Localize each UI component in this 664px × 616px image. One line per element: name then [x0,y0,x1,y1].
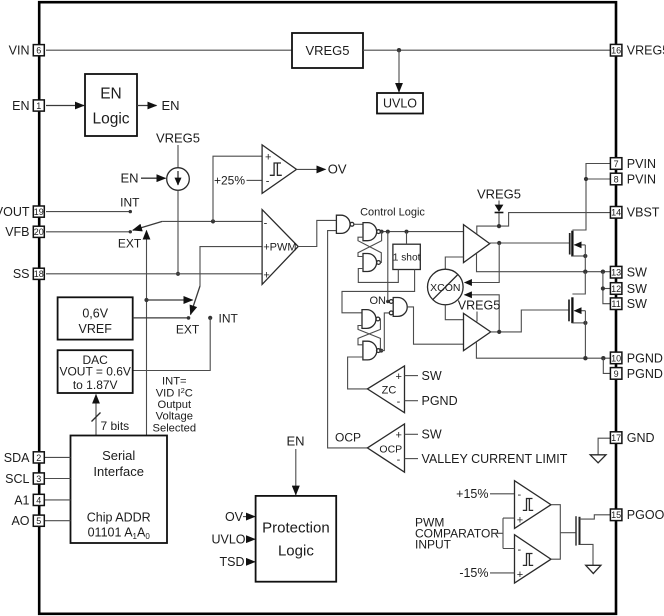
and gate ON (inverted inputs) [389,298,407,317]
wire VBST pin to bootstrap [477,213,611,234]
current source I-SS [167,168,190,191]
wire VREG5 box to pin 16 [363,49,610,51]
svg-text:7: 7 [614,159,619,169]
note INT= VID I2C Output Voltage Selected [153,376,197,435]
dac block [58,350,133,393]
svg-text:SDA: SDA [4,451,30,465]
wire L1 out to ON gate [388,232,389,302]
junction SW c [601,286,605,290]
svg-text:-: - [266,175,270,187]
pin 2 SDA [4,451,45,465]
comparator OCP (overcurrent) [367,424,404,472]
junction HS gate [497,241,501,245]
wire SDA to serial interface [44,456,70,458]
junction PVIN [584,177,588,181]
wire Q1 source to SW [584,245,586,272]
wire SW rail [477,254,611,272]
wire GND pin to ground [598,438,610,454]
svg-text:INT: INT [219,311,239,325]
junction VREG5 net [397,48,401,52]
svg-text:8: 8 [614,174,619,184]
wire A1 to serial interface [44,499,70,501]
svg-text:XCON: XCON [430,282,460,294]
svg-text:VOUT = 0.6V: VOUT = 0.6V [59,364,130,378]
node ON [386,300,389,303]
pin 15 PGOOD [610,508,664,522]
wire/arrow EN pin to EN Logic [46,105,84,107]
pin 19 VOUT [0,205,44,219]
svg-text:Output: Output [158,399,192,411]
junction PGND a [583,356,587,360]
svg-text:SW: SW [627,266,647,280]
svg-text:2: 2 [36,453,41,463]
wire PVIN pin8 tap [586,178,610,180]
wire XCON to high-side driver [445,257,463,269]
wire L1 out to one-shot [406,232,408,245]
svg-text:16: 16 [611,46,621,56]
pin 4 A1 [14,493,44,507]
junction SW b [601,270,605,274]
wire/arrow HS gate to XCON [465,243,500,283]
wire OCP comparator output to control logic [328,231,368,448]
pin 20 VFB [5,225,44,239]
pin 11 SW [610,297,647,311]
svg-text:EN: EN [12,99,29,113]
wire switch common to error comparator minus [162,220,262,222]
svg-text:EXT: EXT [176,322,200,336]
wire G1 to latch L1 [354,223,363,225]
ground symbol (PGOOD) [586,565,601,573]
svg-text:Serial: Serial [102,448,135,463]
svg-text:EN: EN [120,171,138,186]
wire SS pin to PWM comparator [46,273,262,275]
svg-text:-: - [518,544,522,556]
transistor Q3 (PGOOD open-drain NMOS) [576,516,580,545]
svg-text:-: - [518,489,522,501]
wire/arrow VREG5 to UVLO [398,50,400,92]
pin 9 PGND [610,367,663,381]
wire/arrow EN to current source [141,177,166,179]
svg-text:OV: OV [225,510,244,524]
node D output [379,349,383,353]
svg-text:13: 13 [611,268,621,278]
svg-text:01101 A1A0: 01101 A1A0 [88,526,151,542]
wire Q2 source to PGND [584,311,586,359]
comparator PG-low (with hysteresis) [515,535,552,583]
node VFB end [129,230,132,233]
junction L1 out c [405,230,409,234]
svg-text:PVIN: PVIN [627,157,656,171]
wire SW to pin 12 [603,288,611,290]
svg-text:VREG5: VREG5 [458,299,500,313]
wire SCL to serial interface [44,478,70,480]
svg-text:Interface: Interface [93,464,144,479]
wire VOUT pin (INT position) [46,211,130,213]
svg-text:ON: ON [370,295,387,307]
latch cross-coupling L1/L2 [358,232,382,257]
nand gate C (low-side latch) [362,310,380,329]
wire -15% to PG comparator [490,572,515,574]
wire SW to pins 12/11 [603,272,611,304]
svg-text:VREF: VREF [79,322,113,336]
wire/arrow OV to protection [243,516,255,518]
svg-text:VOUT: VOUT [0,205,30,219]
svg-text:+: + [265,152,271,164]
comparator ZC (zero cross) [367,366,404,413]
svg-text:Logic: Logic [92,111,129,128]
switch EXT position arrow [146,231,148,436]
pin 10 PGND [610,351,663,365]
wire/arrow EN to protection logic [295,449,297,495]
svg-text:VREG5: VREG5 [305,43,349,58]
nand gate D (low-side latch) [363,341,380,360]
svg-text:AO: AO [11,514,29,528]
svg-text:SS: SS [13,267,30,281]
block Serial Interface [71,436,168,544]
svg-text:UVLO: UVLO [383,97,417,111]
junction SW a [583,270,587,274]
label PWM COMPARATOR INPUT [415,515,499,551]
svg-text:-: - [397,396,401,408]
wire PG comparator outputs [551,505,560,560]
svg-text:19: 19 [34,207,44,217]
svg-text:VFB: VFB [5,225,29,239]
wire VFB pin [46,231,130,233]
svg-text:15: 15 [611,510,621,520]
wire/arrow serial interface to DAC (7 bits) [95,395,97,436]
svg-text:EN: EN [100,86,122,103]
pin 16 VREG5 [610,44,664,58]
svg-text:VALLEY CURRENT LIMIT: VALLEY CURRENT LIMIT [422,452,568,466]
wire DAC output to INT node [133,318,211,371]
svg-text:5: 5 [36,516,41,526]
svg-text:SW: SW [422,369,442,383]
wire VREG5 to current source [177,145,179,168]
svg-text:VREG5: VREG5 [477,187,521,202]
svg-text:OV: OV [328,162,347,177]
pin 18 SS [13,267,44,281]
nand gate L1 (latch) [363,223,380,241]
comparator OV (with hysteresis) [262,145,296,194]
svg-text:1: 1 [36,101,41,111]
svg-text:PVIN: PVIN [627,172,656,186]
reference block 0.6V VREF [58,297,133,339]
pin 7 PVIN [610,157,656,171]
pin 6 VIN [9,44,45,58]
wire +15% to PG comparator [490,493,515,495]
svg-text:3: 3 [36,474,41,484]
wire Q3 drain to PGOOD pin [580,515,611,519]
switch wiper VFB [133,221,163,230]
block Protection Logic [256,496,337,582]
svg-text:7 bits: 7 bits [101,419,130,433]
wire PG output to Q3 gate [560,532,576,534]
svg-text:PGND: PGND [627,351,663,365]
diode D-BST (bootstrap) [495,201,504,227]
svg-text:17: 17 [611,433,621,443]
svg-text:+25%: +25% [214,173,245,187]
transistor Q1 (high-side NMOS) [570,231,586,257]
svg-text:4: 4 [36,495,41,505]
svg-text:+: + [517,569,523,581]
wire XCON to low-side driver [445,305,463,320]
switch wiper reference select [191,286,201,315]
block EN Logic [85,74,137,136]
wire VIN to VREG5 box [46,49,292,51]
svg-text:Voltage: Voltage [156,411,193,423]
one-shot block [393,244,421,269]
svg-text:-: - [264,218,268,230]
junction PGND b [601,356,605,360]
svg-text:to 1.87V: to 1.87V [73,378,118,392]
wire PGND to pin 9 [603,358,610,373]
svg-text:EN: EN [286,433,304,448]
junction L1 out b [386,230,390,234]
svg-text:PGOOD: PGOOD [627,508,664,522]
pin 17 GND [610,431,654,445]
junction Q2 source/body [583,321,587,325]
latch cross-coupling C/D [358,319,380,345]
wire ZC plus to SW [405,375,419,377]
svg-text:Protection: Protection [262,520,330,537]
svg-text:+15%: +15% [456,487,488,501]
pin 1 EN [12,99,44,113]
svg-text:INT: INT [120,196,140,210]
pin 12 SW [610,282,647,296]
svg-text:VID I2C: VID I2C [156,386,193,400]
wire ZC comparator output to D gate [348,357,368,389]
svg-text:Control Logic: Control Logic [360,206,425,218]
svg-text:EN: EN [162,98,180,113]
ground symbol (GND pin) [590,455,606,463]
wire PWM output to control logic [298,220,336,246]
svg-text:PGND: PGND [627,367,663,381]
svg-text:+: + [263,270,269,282]
wire VREF output (EXT position) [133,317,189,319]
svg-text:+: + [396,430,402,442]
junction on VFB-EXT line [144,298,148,302]
wire VREG5 to low-side driver [476,312,478,322]
junction LS gate [497,330,501,334]
wire OCP minus to valley limit [405,458,419,460]
pin 8 PVIN [610,172,656,186]
wire Q3 source to ground [580,544,594,565]
svg-text:PGND: PGND [422,394,458,408]
junction on SS line [176,272,180,276]
wire D output to ON gate [380,313,389,351]
node EXT position [187,316,191,320]
svg-text:SW: SW [627,282,647,296]
svg-text:TSD: TSD [220,555,245,569]
svg-text:-15%: -15% [459,566,488,580]
svg-text:EXT: EXT [118,237,142,251]
regulator block VREG5 [292,33,363,68]
comparator PG-high (with hysteresis) [515,481,552,529]
wire/arrow LS gate to XCON [465,295,500,332]
svg-text:10: 10 [611,353,621,363]
wire L1 output to high-side driver [380,231,463,233]
pin 3 SCL [5,472,44,486]
wire switch2 common to PWM comparator plus [200,247,262,286]
wire one-shot to low-side latch [342,270,415,313]
svg-text:14: 14 [611,208,621,218]
svg-text:12: 12 [611,284,621,294]
wire one-shot feedback to L2 [358,269,398,283]
anti-cross-conduction block XCON [428,269,464,305]
svg-text:11: 11 [611,299,620,309]
svg-text:Selected: Selected [153,422,197,434]
wire OCP plus to SW [405,433,419,435]
wire +25% to OV comparator minus [247,179,263,181]
svg-text:+PWM: +PWM [263,241,296,253]
wire PWM comparator input bracket [492,518,515,548]
wire ZC minus to PGND [405,400,419,402]
node INT position [129,210,132,213]
svg-text:0,6V: 0,6V [82,307,108,321]
nand gate L2 (latch) [363,254,380,272]
wire low-side driver output to gate [491,310,569,332]
wire/arrow EN Logic output [137,105,157,107]
driver U-HS (high side) [464,225,490,263]
svg-text:6: 6 [36,46,41,56]
svg-text:+: + [396,371,402,383]
svg-text:A1: A1 [14,493,29,507]
svg-text:9: 9 [614,369,619,379]
wire/arrow OV output [297,168,326,170]
wire ON gate output to low-side driver [407,307,463,344]
svg-text:VBST: VBST [627,206,660,220]
svg-text:VREG5: VREG5 [156,131,200,146]
svg-text:SCL: SCL [5,472,29,486]
transistor Q2 (low-side NMOS) [569,297,585,323]
svg-text:SW: SW [422,428,442,442]
svg-text:OCP: OCP [335,430,361,444]
svg-text:Chip ADDR: Chip ADDR [87,510,151,524]
svg-text:Logic: Logic [278,543,314,560]
wire OV comparator plus input [213,156,262,221]
pin 14 VBST [610,206,659,220]
svg-text:-: - [397,454,401,466]
svg-text:GND: GND [627,431,655,445]
wire Q2 drain from SW [572,272,585,294]
comparator PWM [262,210,298,285]
junction Q1 source/body [583,254,587,258]
svg-text:INPUT: INPUT [415,538,452,552]
svg-text:SW: SW [627,297,647,311]
svg-text:18: 18 [34,269,44,279]
node INT (DAC) [208,316,212,320]
wire PGND rail [476,342,610,358]
bus slash 7 bits [92,413,101,422]
svg-text:20: 20 [34,227,44,237]
pin 5 AO [11,514,44,528]
wire/arrow INT position (reference switch) [147,299,193,301]
svg-text:UVLO: UVLO [211,532,245,546]
driver U-LS (low side) [464,313,491,350]
pin 13 SW [610,266,647,280]
wire/arrow UVLO to protection [247,538,255,540]
nand gate G1 (PWM/OCP input) [336,215,354,233]
wire PVIN pin7 to HS drain [572,164,610,231]
junction bootstrap [497,224,501,228]
svg-text:VREG5: VREG5 [627,44,664,58]
junction OV sense tap [211,219,215,223]
comparator block UVLO [377,93,423,114]
svg-text:VIN: VIN [9,44,30,58]
svg-text:+: + [517,515,523,527]
wire high-side driver output to gate [490,242,570,244]
wire/arrow TSD to protection [247,561,256,563]
junction L1 out a [380,230,384,234]
wire current source to SS line [177,190,179,273]
wire AO to serial interface [44,520,70,522]
svg-text:ZC: ZC [382,385,397,397]
svg-text:1 shot: 1 shot [393,252,421,263]
